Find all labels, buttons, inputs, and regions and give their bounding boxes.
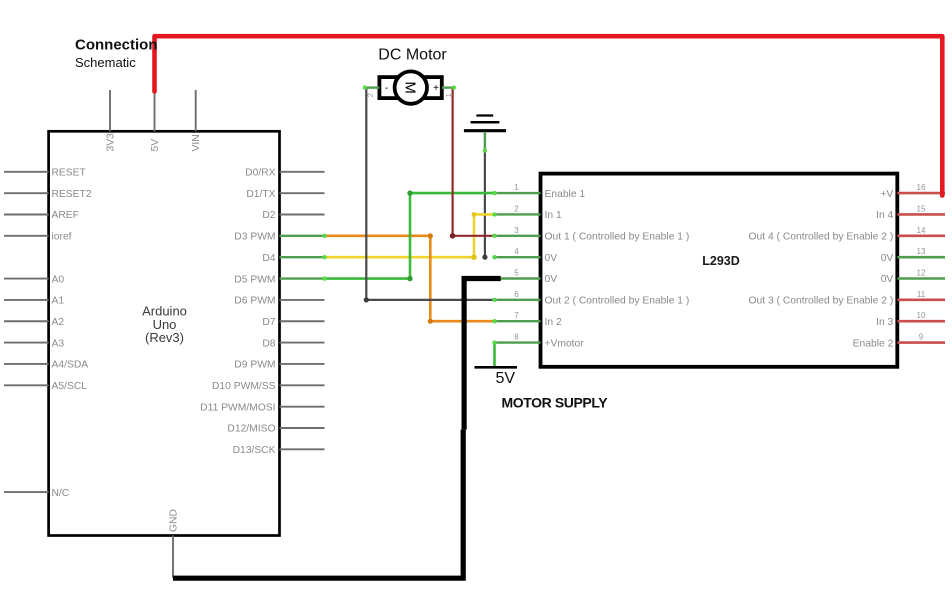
svg-text:D2: D2	[262, 210, 275, 221]
svg-text:8: 8	[514, 333, 519, 342]
svg-text:0V: 0V	[545, 253, 558, 264]
svg-text:A0: A0	[52, 274, 65, 285]
svg-text:MOTOR SUPPLY: MOTOR SUPPLY	[502, 394, 609, 410]
svg-text:D8: D8	[262, 338, 275, 349]
svg-text:L293D: L293D	[702, 254, 740, 268]
svg-text:13: 13	[917, 247, 926, 256]
svg-text:D0/RX: D0/RX	[245, 168, 275, 179]
svg-text:In 3: In 3	[876, 317, 893, 328]
svg-text:Out 3 ( Controlled by Enable 2: Out 3 ( Controlled by Enable 2 )	[748, 296, 893, 307]
svg-text:4: 4	[514, 247, 519, 256]
svg-text:D9 PWM: D9 PWM	[234, 360, 275, 371]
svg-text:D3 PWM: D3 PWM	[234, 232, 275, 243]
svg-text:AREF: AREF	[52, 210, 79, 221]
svg-text:+V: +V	[880, 189, 893, 200]
svg-text:Out 1 ( Controlled by Enable 1: Out 1 ( Controlled by Enable 1 )	[545, 232, 690, 243]
svg-text:3V3: 3V3	[106, 133, 117, 152]
svg-text:Schematic: Schematic	[75, 55, 136, 70]
svg-text:3: 3	[514, 226, 519, 235]
svg-text:RESET2: RESET2	[52, 189, 92, 200]
svg-text:Enable 2: Enable 2	[853, 338, 894, 349]
svg-text:A3: A3	[52, 338, 65, 349]
svg-text:D11 PWM/MOSI: D11 PWM/MOSI	[200, 402, 275, 413]
svg-text:Out 2 ( Controlled by Enable 1: Out 2 ( Controlled by Enable 1 )	[545, 296, 690, 307]
svg-text:In 2: In 2	[545, 317, 562, 328]
svg-text:A1: A1	[52, 296, 65, 307]
svg-text:RESET: RESET	[52, 168, 87, 179]
svg-text:+: +	[433, 83, 439, 94]
svg-text:0V: 0V	[545, 274, 558, 285]
svg-text:D10 PWM/SS: D10 PWM/SS	[212, 381, 276, 392]
svg-text:A4/SDA: A4/SDA	[52, 360, 89, 371]
svg-text:5V: 5V	[496, 370, 516, 387]
svg-text:D1/TX: D1/TX	[246, 189, 275, 200]
svg-text:D12/MISO: D12/MISO	[227, 424, 275, 435]
svg-text:A2: A2	[52, 317, 65, 328]
svg-text:In 4: In 4	[876, 210, 893, 221]
svg-text:15: 15	[917, 204, 926, 213]
svg-text:5V: 5V	[150, 139, 161, 152]
svg-text:0V: 0V	[881, 253, 894, 264]
svg-text:(Rev3): (Rev3)	[145, 330, 184, 345]
svg-text:-: -	[385, 83, 388, 94]
svg-text:16: 16	[917, 183, 926, 192]
svg-text:A5/SCL: A5/SCL	[52, 381, 88, 392]
svg-text:0V: 0V	[881, 274, 894, 285]
svg-text:DC Motor: DC Motor	[378, 47, 447, 64]
svg-text:7: 7	[514, 311, 519, 320]
svg-text:VIN: VIN	[191, 134, 202, 151]
svg-text:D4: D4	[262, 253, 275, 264]
svg-text:9: 9	[919, 333, 924, 342]
svg-text:12: 12	[917, 269, 926, 278]
svg-text:D7: D7	[262, 317, 275, 328]
svg-text:+Vmotor: +Vmotor	[545, 338, 585, 349]
svg-text:5: 5	[514, 269, 519, 278]
svg-text:In 1: In 1	[545, 210, 562, 221]
svg-text:N/C: N/C	[52, 488, 70, 499]
svg-text:Enable 1: Enable 1	[545, 189, 586, 200]
svg-text:M: M	[402, 81, 419, 94]
svg-text:Connection: Connection	[75, 37, 158, 54]
svg-text:Out 4 ( Controlled by Enable 2: Out 4 ( Controlled by Enable 2 )	[748, 232, 893, 243]
svg-text:ioref: ioref	[52, 232, 72, 243]
svg-text:GND: GND	[169, 509, 180, 532]
svg-text:1: 1	[514, 183, 519, 192]
svg-text:D5 PWM: D5 PWM	[234, 274, 275, 285]
svg-text:14: 14	[917, 226, 926, 235]
svg-text:11: 11	[917, 290, 926, 299]
svg-text:D6 PWM: D6 PWM	[234, 296, 275, 307]
svg-text:10: 10	[917, 311, 926, 320]
svg-text:D13/SCK: D13/SCK	[233, 445, 276, 456]
svg-text:6: 6	[514, 290, 519, 299]
svg-text:2: 2	[514, 204, 519, 213]
